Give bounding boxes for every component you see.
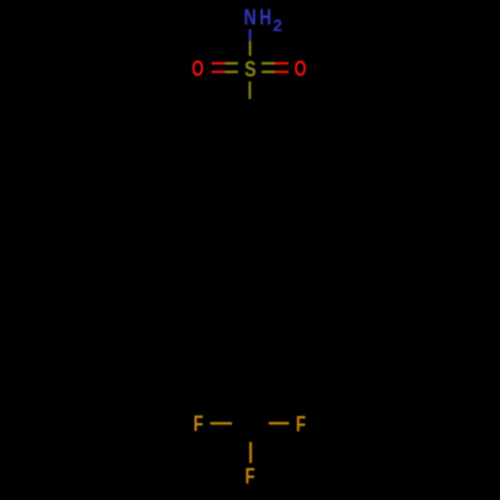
svg-text:H: H	[260, 7, 272, 31]
oxygen O left	[192, 58, 204, 82]
svg-text:F: F	[245, 465, 255, 489]
svg-text:O: O	[294, 58, 306, 82]
double bond S=O right, upper line	[262, 62, 275, 65]
svg-text:F: F	[193, 413, 203, 437]
double bond S=O left, lower line	[212, 71, 226, 74]
fluorine F bottom	[245, 465, 255, 489]
bond N-S (upper half, N colour)	[249, 29, 251, 41]
fluorine F right	[296, 413, 306, 437]
svg-text:S: S	[244, 58, 256, 82]
svg-text:O: O	[192, 58, 204, 82]
bond N-S (lower half, S colour)	[249, 41, 251, 56]
svg-text:N: N	[244, 6, 257, 30]
bond C-F left (F half)	[210, 422, 232, 425]
bond S-C (S half, carbon half invisible)	[249, 82, 251, 100]
bond C-F bottom (F half)	[249, 442, 252, 463]
sulfur S1	[244, 58, 256, 82]
amine label NH2	[244, 6, 257, 30]
double bond S=O right, lower line	[262, 71, 275, 74]
oxygen O right	[294, 58, 306, 82]
svg-text:F: F	[296, 413, 306, 437]
bond C-F right (F half)	[269, 422, 289, 425]
fluorine F left	[193, 413, 203, 437]
double bond S=O left, upper line	[212, 62, 226, 65]
svg-text:2: 2	[273, 17, 282, 35]
